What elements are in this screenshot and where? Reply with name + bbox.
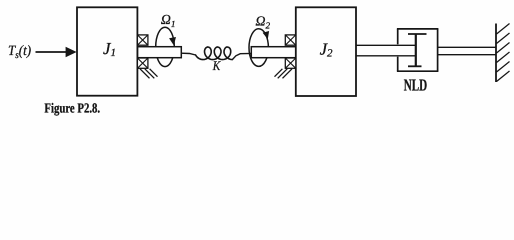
svg-text:Ts(t): Ts(t) bbox=[8, 43, 31, 61]
svg-text:Figure P2.8.: Figure P2.8. bbox=[44, 101, 100, 117]
svg-text:NLD: NLD bbox=[404, 76, 427, 95]
svg-text:K: K bbox=[212, 58, 221, 73]
